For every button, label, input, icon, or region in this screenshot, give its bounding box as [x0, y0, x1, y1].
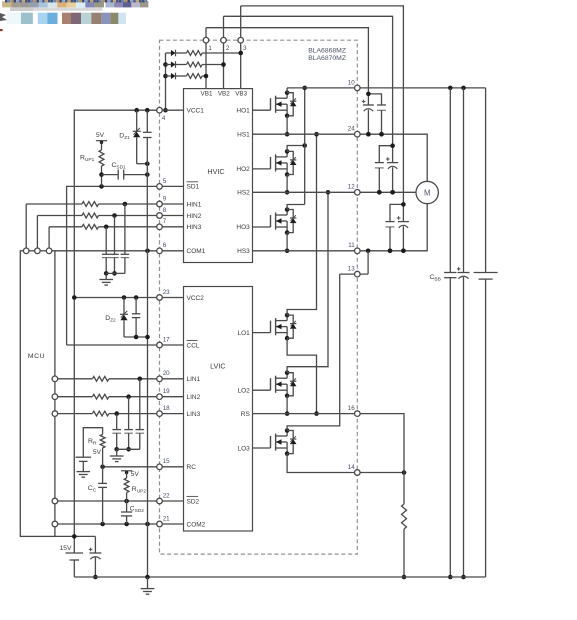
wire top rail VB3 (pin3) [241, 6, 404, 205]
wire RS row (pin 16) [253, 414, 405, 473]
ground (system) [147, 577, 149, 589]
wire Q3 source to HS3 [286, 233, 288, 251]
capacitor VCC1 bypass + ground rail [146, 110, 148, 132]
node pin 21 [157, 521, 163, 527]
svg-text:18: 18 [163, 405, 170, 412]
node MCU side pins [52, 376, 58, 382]
svg-text:SD2: SD2 [187, 498, 200, 505]
capacitor VCC2 bypass [135, 298, 137, 314]
wire HIN cap bus + ground [106, 272, 125, 274]
svg-text:5V: 5V [93, 449, 102, 456]
wire VCC1 net (pin 4 row) [74, 110, 183, 553]
wire Q1 drain to P rail [286, 88, 288, 93]
node pin 8 [157, 213, 163, 219]
wire CCL net (pin 17 row) [67, 344, 184, 346]
wire Q2 source to HS2 [286, 175, 288, 193]
svg-text:HS1: HS1 [237, 132, 250, 139]
svg-text:12: 12 [348, 184, 355, 191]
svg-text:VB3: VB3 [235, 91, 247, 98]
svg-text:COM1: COM1 [187, 248, 206, 255]
svg-text:15V: 15V [60, 545, 72, 552]
node pin 11 [355, 248, 361, 254]
wire HIN1 net (pin 9 row) [26, 203, 82, 205]
svg-text:16: 16 [348, 405, 355, 412]
capacitor C_SD1 [102, 174, 119, 176]
node MCU top pins [23, 248, 29, 254]
node pin 2 [221, 37, 227, 43]
svg-text:VB1: VB1 [201, 91, 213, 98]
node pin 19 [157, 394, 163, 400]
node pin 16 [355, 411, 361, 417]
svg-text:LO1: LO1 [238, 330, 251, 337]
capacitor LIN1 filter [139, 379, 141, 430]
svg-text:7: 7 [163, 218, 167, 225]
node pin 3 [238, 37, 244, 43]
transistor Q4 (LO1 low-side) [252, 332, 270, 334]
svg-text:HVIC: HVIC [207, 167, 224, 176]
wire MCU HIN1 lead [25, 204, 27, 251]
wire bootstrap feed vertical [165, 53, 167, 110]
wire SD2 net (pin 22 row) [55, 500, 184, 502]
svg-text:BLA6870MZ: BLA6870MZ [308, 55, 346, 62]
wire 15V rail to cap [55, 535, 96, 537]
battery 15V [66, 552, 84, 554]
svg-text:20: 20 [163, 370, 170, 377]
svg-text:19: 19 [163, 388, 170, 395]
wire pin2 vertical [223, 16, 225, 88]
capacitor HIN2 filter [114, 216, 116, 255]
svg-text:HO2: HO2 [236, 166, 250, 173]
wire D_Z2 bottom bus [124, 336, 148, 338]
capacitor LIN3 filter [116, 414, 118, 430]
svg-text:14: 14 [348, 464, 355, 471]
svg-text:1: 1 [208, 45, 212, 52]
wire SD1 net (pin 5 row) [67, 186, 184, 345]
svg-text:LO2: LO2 [238, 388, 251, 395]
svg-text:MCU: MCU [28, 353, 45, 360]
svg-text:BLA6868MZ: BLA6868MZ [308, 48, 346, 55]
node pin 10 [355, 85, 361, 91]
op-amp/driver HVIC box [184, 89, 253, 263]
capacitor snubber (right rail 1) [449, 88, 451, 273]
svg-text:13: 13 [348, 266, 355, 273]
svg-text:22: 22 [163, 492, 170, 499]
wire LO2 source to RS [286, 396, 288, 414]
svg-text:17: 17 [163, 336, 170, 343]
svg-text:23: 23 [163, 289, 170, 296]
wire MCU HIN3 lead [48, 227, 50, 251]
capacitor C_BB electrolytic (right rail 2) [463, 88, 465, 273]
svg-text:LVIC: LVIC [210, 361, 225, 370]
wire COM2 net (pin 21 row) [55, 523, 184, 525]
op-amp/driver LVIC box [184, 287, 253, 532]
wire Q3 drain elbow to P rail [287, 205, 305, 210]
svg-text:5V: 5V [96, 132, 105, 139]
zener D_Z1 [136, 110, 138, 131]
wire LO1 drain to U phase [287, 134, 316, 315]
transistor Q5 (LO2 low-side) [252, 389, 270, 391]
node pin 17 [157, 342, 163, 348]
svg-text:2: 2 [226, 45, 230, 52]
svg-text:11: 11 [348, 242, 355, 249]
capacitor LIN2 filter [128, 397, 130, 430]
svg-text:9: 9 [163, 195, 167, 202]
bootstrap diode+resistor D1/R1 row to VB3 [166, 52, 171, 54]
zener D_Z2 [123, 298, 125, 315]
wire Q1 source to HS1 [286, 116, 288, 134]
wire W phase (pin 11 row) [253, 204, 428, 251]
wire HIN2 net (pin 8 row) [37, 215, 82, 217]
capacitor bootstrap pair C1 (VB1-HS1) [368, 94, 381, 105]
module dashed outline box [160, 40, 358, 554]
resistor R_UP2 [126, 473, 128, 478]
svg-text:VCC2: VCC2 [187, 295, 205, 302]
svg-text:SD1: SD1 [187, 184, 200, 191]
node pin 1 [203, 37, 209, 43]
svg-text:HIN3: HIN3 [187, 224, 202, 231]
5V supply for R_UP1 [96, 140, 107, 142]
wire VCC2 net (pin 23 row) [74, 297, 183, 299]
node pin 12 [355, 190, 361, 196]
node pin 24 [355, 131, 361, 137]
wire U phase (pin 24 row) [253, 134, 428, 181]
wire top rail VB2 (pin2) [224, 16, 393, 145]
5V supply for R_UP2 [121, 470, 132, 472]
svg-text:HIN2: HIN2 [187, 213, 202, 220]
svg-text:10: 10 [348, 79, 355, 86]
svg-text:HIN1: HIN1 [187, 201, 202, 208]
svg-text:COM2: COM2 [187, 521, 206, 528]
wire RC net (pin 15 row) [103, 466, 184, 468]
wire P bus (pin 10 row) [287, 87, 486, 89]
svg-text:LO3: LO3 [238, 445, 251, 452]
capacitor 15V electrolytic [89, 552, 101, 554]
wire LIN3 net (pin 18 row) [55, 413, 93, 415]
wire pin 13 link [340, 273, 368, 275]
svg-text:CCL: CCL [187, 342, 200, 349]
svg-text:21: 21 [163, 515, 170, 522]
bootstrap diode+resistor D2/R2 row to VB2 [166, 64, 171, 66]
bootstrap diode+resistor D3/R3 row to VB1 [166, 75, 171, 77]
svg-text:5: 5 [163, 178, 167, 185]
resistor R_UP1 [101, 142, 103, 150]
svg-text:8: 8 [163, 207, 167, 214]
svg-text:15: 15 [163, 458, 170, 465]
wire Q2 drain elbow to P rail [287, 146, 305, 152]
motor M [416, 181, 438, 203]
svg-text:6: 6 [163, 242, 167, 249]
node pin 14 [355, 470, 361, 476]
svg-text:24: 24 [348, 126, 355, 133]
node pin 23 [157, 295, 163, 301]
wire COM1 net (pin 6 row) [55, 250, 184, 252]
wire LIN2 net (pin 19 row) [55, 396, 93, 398]
transistor Q2 (HO2 high-side) [252, 168, 270, 170]
transistor Q6 (LO3 low-side) [252, 447, 270, 449]
capacitor bootstrap pair C3 (VB3-HS3) [390, 204, 403, 221]
svg-text:LIN2: LIN2 [187, 394, 201, 401]
svg-text:VCC1: VCC1 [187, 108, 205, 115]
node pin 20 [157, 376, 163, 382]
wire P rail drop [304, 88, 306, 205]
capacitor C_SD2 [126, 501, 128, 512]
capacitor C_C [102, 467, 104, 484]
svg-text:HO3: HO3 [236, 224, 250, 231]
svg-text:4: 4 [162, 115, 166, 122]
wire MCU HIN2 lead [36, 216, 38, 251]
node pin 22 [157, 498, 163, 504]
svg-text:HO1: HO1 [236, 108, 250, 115]
wire LIN1 net (pin 20 row) [55, 378, 93, 380]
resistor R_R + 5V source [83, 428, 102, 458]
node pin 7 [157, 224, 163, 230]
svg-text:VB2: VB2 [218, 91, 230, 98]
wire V phase (pin 12 row) [253, 191, 417, 193]
transistor Q1 (HO1 high-side) [252, 109, 270, 111]
svg-text:LIN3: LIN3 [187, 411, 201, 418]
wire LO3 drain to W phase / pin 13 [287, 274, 340, 430]
svg-text:HS2: HS2 [237, 190, 250, 197]
svg-text:RC: RC [187, 464, 197, 471]
wire pin1 vertical [205, 28, 207, 89]
node pin 15 [157, 464, 163, 470]
node pin 4 [157, 107, 163, 113]
wire pin3 vertical [240, 6, 242, 89]
node pin 18 [157, 411, 163, 417]
svg-text:LIN1: LIN1 [187, 376, 201, 383]
svg-text:M: M [424, 188, 431, 197]
capacitor bootstrap pair C2 (VB2-HS2) [379, 146, 392, 163]
resistor R_S shunt [403, 473, 405, 505]
capacitor HIN3 filter [105, 227, 107, 255]
svg-text:HS3: HS3 [237, 248, 250, 255]
wire HIN3 net (pin 7 row) [49, 226, 82, 228]
svg-text:5V: 5V [131, 471, 140, 478]
node pin 5 [157, 184, 163, 190]
MCU box [20, 251, 55, 537]
node pin 9 [157, 201, 163, 207]
svg-text:3: 3 [243, 45, 247, 52]
battery DC source (right rail 3) [485, 88, 487, 273]
svg-text:RS: RS [241, 411, 251, 418]
transistor Q3 (HO3 high-side) [252, 226, 270, 228]
wire LIN cap bus + ground [117, 448, 140, 450]
wire LO1 source to RS [287, 338, 316, 413]
node pin 13 [355, 271, 361, 277]
wire LO2 drain to V phase [287, 192, 328, 372]
node pin 6 [157, 248, 163, 254]
wire bottom ground bus [74, 576, 485, 578]
wire top rail VB1 (pin1) [206, 28, 368, 94]
wire LO3 source to pin 14 [287, 454, 404, 473]
capacitor HIN1 filter [124, 204, 126, 254]
watermark pixel blocks [0, 0, 148, 31]
wire ground rail (COM vertical) [147, 251, 149, 337]
